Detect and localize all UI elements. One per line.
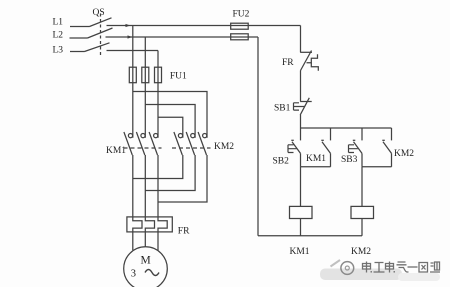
wire KM2 coil to bottom bus (361, 219, 363, 236)
watermark shadow blob (320, 269, 402, 281)
wire phase B drop (144, 37, 146, 67)
wire KM2 pole3 output (158, 155, 207, 202)
svg-text:KM1: KM1 (106, 146, 126, 156)
node L3 (53, 46, 64, 56)
wire KM2 pole2 output (145, 155, 195, 191)
svg-text:L3: L3 (53, 46, 64, 56)
thermal relay FR heater (127, 217, 190, 237)
svg-text:SB1: SB1 (274, 104, 291, 114)
thermal relay contact FR (NC) (282, 51, 318, 71)
wire L3 phase (107, 50, 159, 52)
svg-text:M: M (141, 255, 151, 267)
wire phase C drop (157, 51, 159, 68)
coil KM2 (351, 206, 374, 257)
junction arrow on L2 wire (128, 35, 133, 38)
node L2 (53, 31, 64, 41)
fuse FU2 (231, 10, 250, 40)
svg-text:KM1: KM1 (306, 154, 326, 164)
svg-text:KM2: KM2 (351, 247, 371, 257)
wire control right rail top (300, 26, 302, 53)
wire KM1 coil to bottom bus (300, 219, 302, 236)
watermark logo circle (341, 262, 354, 275)
wire branch L3 to KM2 pole1 (158, 117, 183, 138)
disconnect switch QS (70, 8, 113, 56)
svg-text:QS: QS (93, 8, 105, 18)
svg-text:FR: FR (282, 58, 294, 68)
push button SB3 (NO start rev) (341, 128, 362, 167)
svg-text:SB3: SB3 (341, 155, 358, 165)
watermark text 电工电气一网通 (363, 262, 441, 273)
svg-text:3: 3 (131, 269, 136, 280)
svg-text:FR: FR (178, 227, 190, 237)
svg-text:FU1: FU1 (170, 71, 187, 81)
svg-text:L1: L1 (53, 18, 64, 28)
wire phase A drop (132, 26, 134, 68)
wire SB2/KM1 join (301, 166, 331, 168)
svg-text:KM1: KM1 (290, 247, 310, 257)
wire KM1 pole outputs down (133, 155, 158, 217)
wire branch L2 to KM2 pole2 (145, 105, 195, 138)
wire L1 phase to FU2 and right rail (107, 25, 301, 27)
wire control bottom bus (258, 235, 362, 237)
svg-text:KM2: KM2 (214, 142, 234, 152)
wire SB1 to bus (300, 115, 302, 128)
wire FR to SB1 (300, 71, 302, 102)
svg-text:KM2: KM2 (394, 149, 414, 159)
push button SB2 (NO start fwd) (273, 128, 301, 167)
wire control left rail (257, 37, 259, 236)
fuse FU1 (129, 67, 187, 83)
wire FU1 outputs to KM1 poles (133, 83, 158, 138)
wire branch L1 to KM2 pole3 (133, 92, 207, 138)
push button SB1 (NC stop) (274, 98, 312, 115)
wire FR to motor (133, 232, 158, 251)
junction arrow on L1 wire (126, 24, 131, 27)
wire control top bus (301, 127, 392, 129)
contactor KM2 main contacts (172, 132, 234, 155)
wire KM2 pole1 output (133, 155, 183, 179)
motor M 3~ (124, 247, 168, 287)
node L1 (53, 18, 64, 28)
coil KM1 (290, 206, 313, 257)
wire to KM1 coil (300, 167, 302, 207)
wire L2 phase to FU2 and left rail (106, 36, 259, 38)
watermark logo swoosh (331, 260, 341, 267)
wire SB3/KM2 join (362, 166, 392, 168)
contactor KM2 auxiliary contact (382, 128, 414, 167)
wire to KM2 coil (361, 167, 363, 207)
contactor KM1 auxiliary contact (306, 128, 331, 167)
contactor KM1 main contacts (106, 132, 162, 156)
svg-text:SB2: SB2 (273, 157, 290, 167)
svg-text:FU2: FU2 (233, 10, 250, 20)
svg-text:L2: L2 (53, 31, 64, 41)
